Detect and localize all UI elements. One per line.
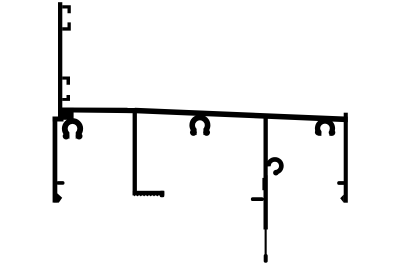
T-drop foot teeth bbox=[134, 195, 162, 196]
middle vertical grip ridge bbox=[262, 178, 263, 190]
junction block bbox=[58, 108, 74, 120]
clip B right foot bbox=[203, 129, 210, 136]
middle vertical tick bbox=[251, 197, 264, 201]
clip A right foot bbox=[76, 133, 83, 140]
snap hook pair 2 bottom arm bbox=[62, 95, 70, 101]
clip C bottom trim bbox=[313, 136, 337, 142]
clip B neck bbox=[197, 112, 203, 117]
clip C left foot bbox=[315, 129, 322, 136]
snap hook pair 1 top arm bbox=[62, 5, 71, 13]
clip A annulus (junction screw boss) bbox=[62, 118, 83, 139]
middle vertical bbox=[264, 114, 268, 230]
clip B annulus bbox=[189, 115, 210, 136]
right vertical tick bbox=[337, 181, 345, 185]
T-drop vertical bbox=[133, 108, 137, 195]
left wall vertical bar bbox=[58, 2, 62, 116]
clip C annulus bbox=[315, 118, 335, 138]
clip B slot bbox=[197, 126, 204, 138]
clip B left foot bbox=[190, 129, 197, 136]
snap hook pair 2 top arm bbox=[62, 77, 70, 85]
lower-left vertical bbox=[53, 121, 58, 203]
T-drop foot end cap bbox=[160, 191, 165, 197]
right vertical bbox=[344, 113, 348, 203]
snap hook pair 1 bottom arm bbox=[62, 22, 71, 30]
T-drop foot bbox=[133, 191, 165, 196]
clip D opening wedge bbox=[263, 166, 275, 178]
clip D annulus (on middle vertical) bbox=[266, 157, 284, 175]
middle vertical end cap bbox=[264, 254, 268, 263]
main bar left segment bbox=[62, 108, 135, 114]
lower-left bottom foot bbox=[54, 193, 62, 202]
middle vertical (redraw over wedge) bbox=[264, 114, 268, 230]
clip C right foot bbox=[329, 129, 336, 136]
clip C slot bbox=[321, 129, 329, 140]
middle vertical thin rod bbox=[265, 228, 267, 256]
main bar right segment bbox=[135, 108, 348, 122]
clip A left foot bbox=[63, 133, 70, 140]
lower-left tick bbox=[57, 181, 65, 185]
ledge bbox=[53, 117, 64, 122]
right vertical bottom foot bbox=[340, 195, 344, 203]
clip C neck bbox=[322, 117, 329, 123]
clip D bottom foot bbox=[273, 170, 279, 176]
clip A slot bbox=[69, 130, 75, 142]
